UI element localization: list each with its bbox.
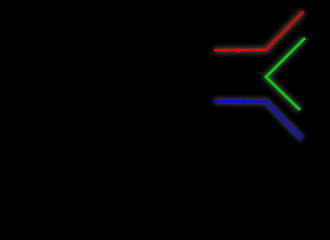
blue marker diamond (241, 98, 246, 105)
blue level line (horizontal then falling branch) (215, 101, 303, 139)
green chevron line (266, 38, 305, 110)
red level line (horizontal then rising branch) (214, 12, 304, 51)
red marker dot (236, 48, 241, 53)
compression-artifact halo around the three lines (214, 12, 305, 140)
